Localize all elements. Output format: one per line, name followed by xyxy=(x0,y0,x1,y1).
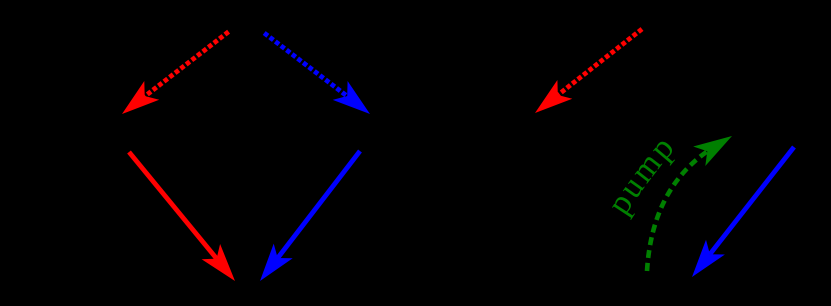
blue solid arrow (right diagram, down-left) xyxy=(692,147,794,277)
red solid arrow (left level to bottom node) xyxy=(129,152,235,281)
green dashed pump curve arrow xyxy=(647,136,732,271)
pump label xyxy=(617,135,688,230)
red dotted arrow (top node to left level) xyxy=(122,32,229,114)
blue solid arrow (right level to bottom node) xyxy=(260,151,360,281)
blue dotted arrow (top node to right level) xyxy=(264,33,370,114)
red dotted arrow (right diagram, down-left) xyxy=(535,29,642,113)
